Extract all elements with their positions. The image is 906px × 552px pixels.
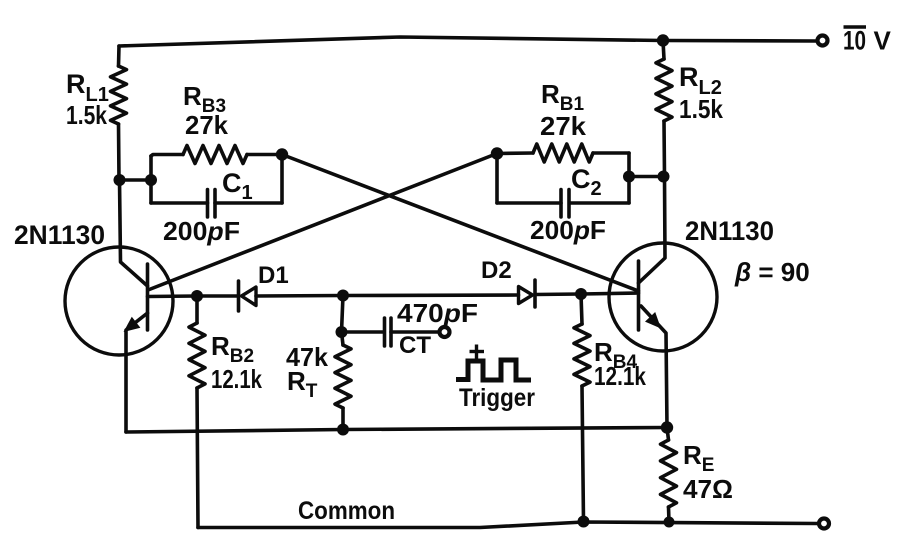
- svg-text:CT: CT: [399, 332, 431, 359]
- wire RB3 to top-right corner: [247, 153, 282, 157]
- resistor RL1: [111, 66, 127, 124]
- svg-text:2N1130: 2N1130: [14, 220, 105, 250]
- terminal trigger input open circle: [440, 327, 450, 337]
- node emitter RE dot: [661, 421, 673, 433]
- svg-text:1.5k: 1.5k: [66, 100, 107, 130]
- wire RL1 to collector node: [117, 124, 121, 180]
- wire cross-coupling B (right box to left base): [148, 154, 497, 291]
- symbol trigger waveform: [456, 360, 531, 380]
- node left base dot: [191, 290, 203, 302]
- wire base node to D1: [197, 294, 238, 298]
- wire box to RL2 line: [629, 175, 664, 179]
- node cross-coupling right dot: [491, 147, 503, 159]
- wire left box bottom right lead: [215, 201, 282, 205]
- transistor Q2 2N1130 circle: [609, 243, 717, 351]
- transistor Q1 emitter arrow: [124, 317, 141, 332]
- svg-text:Trigger: Trigger: [459, 384, 535, 412]
- node box-left dot: [145, 174, 157, 186]
- wire RT to emitter line: [341, 408, 345, 430]
- terminal +10V open circle: [818, 36, 828, 46]
- wire left box top lead: [151, 155, 183, 157]
- wire D2 to right base node: [535, 292, 581, 296]
- capacitor CT: [383, 318, 387, 346]
- wire RB1 to corner: [593, 151, 629, 155]
- svg-text:200pF: 200pF: [163, 216, 240, 246]
- node RB4 common dot: [578, 516, 590, 528]
- wire RE top lead: [667, 428, 669, 441]
- wire left box left side: [149, 156, 153, 203]
- wire RL2 to collector node: [662, 121, 666, 177]
- node RT bottom dot: [337, 424, 349, 436]
- node right base dot: [575, 288, 587, 300]
- node cross-coupling left dot: [276, 148, 288, 160]
- resistor RL2: [656, 59, 672, 121]
- svg-text:47Ω: 47Ω: [683, 474, 733, 504]
- svg-text:12.1k: 12.1k: [211, 364, 262, 394]
- node box-right dot: [623, 171, 635, 183]
- node collector-left dot: [114, 174, 126, 186]
- wire top supply rail: [119, 37, 816, 46]
- wire CT node to RT: [342, 332, 344, 345]
- wire Q1 collector: [120, 180, 148, 286]
- svg-text:1.5k: 1.5k: [679, 94, 723, 124]
- wire from rail into RL1: [117, 46, 121, 66]
- wire right box right side: [627, 153, 631, 203]
- wire right box left side: [495, 154, 499, 204]
- wire RE to common rail: [667, 507, 671, 522]
- svg-text:Common: Common: [298, 497, 395, 525]
- resistor RB4: [574, 324, 590, 386]
- node trigger branch dot: [337, 290, 349, 302]
- transistor Q2 emitter arrow: [645, 312, 661, 329]
- svg-text:2N1130: 2N1130: [685, 216, 774, 246]
- capacitor C2: [559, 190, 563, 218]
- wire Q2 collector: [639, 177, 666, 284]
- diode D2 cathode bar: [533, 280, 537, 307]
- resistor RB2: [189, 323, 205, 388]
- wire right box bottom left lead: [497, 201, 561, 205]
- svg-text:D1: D1: [258, 262, 289, 289]
- wire node to box: [120, 178, 152, 182]
- node supply junction dot: [657, 34, 669, 46]
- svg-text:β = 90: β = 90: [734, 257, 810, 287]
- wire common rail: [198, 522, 817, 528]
- svg-text:470pF: 470pF: [397, 298, 478, 328]
- wire RB2 to common rail: [197, 388, 198, 528]
- resistor RB1: [533, 144, 593, 162]
- wire base node to RB2: [195, 296, 199, 323]
- wire right box top lead: [497, 151, 533, 155]
- wire right box bottom right lead: [570, 201, 630, 205]
- transistor Q1 2N1130 circle: [65, 247, 173, 355]
- node RE common dot: [664, 517, 675, 528]
- svg-text:27k: 27k: [185, 110, 229, 140]
- wire emitter line: [126, 428, 667, 433]
- svg-text:D2: D2: [481, 257, 512, 284]
- wire CT to trigger terminal: [391, 330, 440, 334]
- wire rail to RL2: [663, 41, 664, 60]
- wire Q1 base lead: [148, 294, 198, 298]
- resistor RE: [661, 440, 677, 507]
- wire RB4 to common rail: [582, 386, 584, 522]
- transistor Q2 base bar: [637, 261, 641, 330]
- svg-text:10: 10: [843, 26, 866, 56]
- svg-text:12.1k: 12.1k: [594, 361, 646, 391]
- diode D2 triangle: [519, 287, 533, 304]
- resistor RB3: [183, 146, 247, 164]
- wire trigger node down: [342, 296, 344, 333]
- wire cross-coupling A (left box to right base): [282, 155, 639, 292]
- terminal common open circle: [819, 519, 829, 529]
- transistor Q1 base bar: [146, 264, 150, 330]
- resistor RT: [335, 345, 351, 408]
- wire to CT: [342, 330, 385, 334]
- wire left box bottom left lead: [151, 201, 208, 205]
- svg-text:V: V: [874, 26, 892, 56]
- svg-text:27k: 27k: [540, 111, 587, 141]
- node CT branch dot: [336, 326, 348, 338]
- wire Q1 emitter: [126, 313, 148, 432]
- wire right base node to Q2 base: [581, 293, 639, 294]
- capacitor C1: [206, 190, 210, 218]
- symbol plus sign: [470, 350, 485, 353]
- wire left box right side: [280, 155, 284, 204]
- wire D1 to center node: [256, 294, 343, 298]
- wire right base node to RB4: [581, 294, 582, 324]
- wire Q2 emitter: [641, 306, 667, 428]
- svg-text:200pF: 200pF: [530, 215, 606, 245]
- node collector-right dot: [658, 171, 670, 183]
- diode D1 triangle: [242, 287, 257, 306]
- diode D1 cathode bar: [237, 281, 241, 311]
- wire center node to D2: [343, 293, 519, 297]
